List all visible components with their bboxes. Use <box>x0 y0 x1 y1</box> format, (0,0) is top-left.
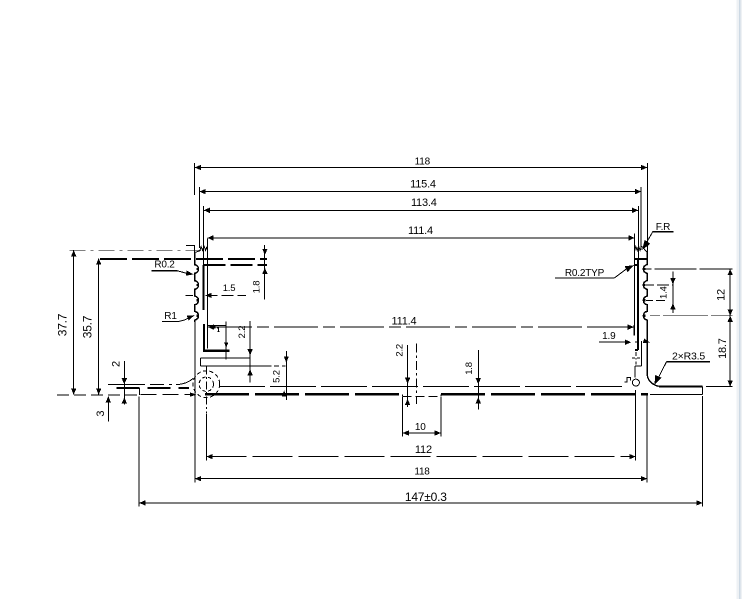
dimension 1.8 mid line <box>476 350 481 409</box>
right wall inner face <box>637 259 639 350</box>
dimension 115.4 text <box>410 178 436 190</box>
dimension 112 text <box>415 444 432 456</box>
svg-text:3: 3 <box>95 411 107 417</box>
dimension 1.9 text <box>602 331 616 342</box>
ext line 113.4 right <box>637 206 639 259</box>
svg-text:1.5: 1.5 <box>223 283 236 294</box>
dimension 12 text <box>715 289 727 301</box>
plate left end vertical <box>139 388 141 395</box>
ext line 113.4 left <box>203 206 205 265</box>
dimension 35.7 line <box>96 258 101 394</box>
svg-text:111.4: 111.4 <box>392 315 417 327</box>
dimension 1.4 line <box>670 272 675 314</box>
svg-text:1.8: 1.8 <box>251 281 262 294</box>
ext line 10 left <box>402 397 404 437</box>
dimension 1.8 lip line <box>262 245 267 300</box>
svg-text:1.4: 1.4 <box>658 286 669 299</box>
svg-text:12: 12 <box>715 289 727 301</box>
ext line 10 right <box>440 397 442 437</box>
dimension 10 text <box>415 422 426 433</box>
ext line 18.7 bottom <box>706 386 733 388</box>
left wall box left vertical <box>203 324 205 352</box>
svg-text:2.2: 2.2 <box>395 344 406 357</box>
ext line 111.4 right <box>634 234 636 336</box>
dimension 2 left text <box>111 361 123 367</box>
boss inner dashed circle <box>199 377 213 391</box>
left step upper line <box>201 357 251 359</box>
dimension 2.2 left line <box>247 321 252 382</box>
svg-text:10: 10 <box>415 422 426 433</box>
ext line 115.4 left <box>198 187 200 248</box>
right wall serrated outer edge <box>643 253 647 375</box>
bottom channel left wall <box>402 394 404 396</box>
bottom channel right wall <box>440 394 442 396</box>
dimension 115.4 line <box>199 189 641 194</box>
left wall top tick <box>186 245 195 247</box>
dimension 5.2 line <box>282 351 289 400</box>
right wall notch floor <box>635 258 647 260</box>
left step lower line <box>201 365 286 367</box>
tooth centerline 2 <box>646 284 673 286</box>
dimension 10 line <box>403 430 441 435</box>
left wall outer lower edge <box>194 322 196 375</box>
dimension 5.2 text <box>272 370 283 383</box>
ext line 118 bottom right <box>646 395 648 482</box>
right boss center cross <box>632 352 640 365</box>
dimension 1.9 upper leader <box>590 326 626 328</box>
dimension 18.7 line <box>728 316 733 387</box>
right flange end vertical <box>701 387 703 395</box>
svg-text:35.7: 35.7 <box>81 315 95 338</box>
arrow on box inner ext <box>224 342 228 347</box>
label F.R <box>642 222 673 250</box>
dimension 112 line <box>206 454 635 459</box>
label R0.2 left <box>152 260 194 276</box>
dimension 18.7 text <box>717 338 729 359</box>
left tongue top line <box>108 378 193 384</box>
right wall lower face <box>634 366 636 378</box>
dimension 35.7 text <box>81 315 95 338</box>
svg-text:1.8: 1.8 <box>464 362 475 375</box>
dimension 118 bottom text <box>414 466 430 477</box>
svg-text:37.7: 37.7 <box>56 313 70 336</box>
plate bottom thick line right <box>441 393 648 395</box>
label R1 <box>162 311 195 322</box>
dimension 1.8 lip text <box>251 281 262 294</box>
dimension 1.5 line <box>186 293 246 298</box>
svg-text:111.4: 111.4 <box>408 225 433 237</box>
dimension 2 left line <box>122 361 127 405</box>
dimension 3 line <box>106 396 111 421</box>
right wall inner face foot <box>635 349 638 351</box>
svg-text:115.4: 115.4 <box>410 178 436 190</box>
plate top line <box>219 385 625 387</box>
svg-text:118: 118 <box>414 466 430 477</box>
boss outer dashed circle <box>193 371 220 398</box>
ext line 112 right <box>635 390 637 461</box>
left wall lower box inner vertical <box>225 322 227 360</box>
dimension 2.2 mid line <box>405 345 410 407</box>
svg-text:112: 112 <box>415 444 432 456</box>
plate bottom thick line left <box>205 393 403 395</box>
dimension 113.4 line <box>204 208 639 213</box>
ext line 147 right <box>702 396 704 507</box>
dimension 118 top text <box>415 156 431 167</box>
svg-text:118: 118 <box>415 156 431 167</box>
right wall fillet 2xR3.5 <box>647 374 659 387</box>
dimension 1.9 lower line <box>599 340 638 345</box>
left plate top thick dashes <box>117 387 190 389</box>
label 2xR3.5 <box>654 351 710 386</box>
ext line 118 bottom left <box>194 375 196 483</box>
dimension 147 line <box>139 500 702 505</box>
tooth centerline 3 <box>646 299 667 301</box>
svg-text:147±0.3: 147±0.3 <box>405 490 447 504</box>
dimension 1.4 text <box>658 286 669 299</box>
dimension 111.4 top text <box>408 225 433 237</box>
dimension 37.7 line <box>71 250 76 394</box>
ext line 112 left <box>205 414 207 461</box>
ext line 115.4 right <box>640 187 642 250</box>
dimension 2.2 left text <box>237 326 248 339</box>
svg-text:18.7: 18.7 <box>717 338 729 359</box>
plate bottom left ext dashes <box>57 394 138 396</box>
left wall lower box bottom bar <box>204 350 230 353</box>
left wall slot vertical <box>206 239 208 349</box>
label 1 small arrow <box>208 325 219 332</box>
tick at 111.4 right end <box>633 325 635 336</box>
dimension 1.8 mid text <box>464 362 475 375</box>
label R0.2TYP <box>555 265 634 279</box>
centerline near channel <box>416 344 418 405</box>
tooth centerline 1 <box>645 268 733 270</box>
dimension 147 text <box>405 490 447 504</box>
right wall lower inner vertical <box>641 341 643 366</box>
ext line 118 top left <box>194 163 196 253</box>
left wall lip top line <box>100 258 267 260</box>
left wall serrated outer edge <box>195 253 199 323</box>
plate bottom left dashes <box>141 394 196 396</box>
left wall lower box top <box>207 325 226 327</box>
dimension 111.4 top line <box>207 235 634 240</box>
left wall top serration zigzag <box>195 246 208 252</box>
dimension 12 line <box>728 269 733 316</box>
left wall lip bottom line <box>204 264 268 266</box>
left wall inner face <box>203 265 205 310</box>
ext line 37.7 top <box>70 249 201 251</box>
svg-text:R1: R1 <box>164 311 177 322</box>
right wall lower step <box>635 365 642 367</box>
dimension 3 text <box>95 411 107 417</box>
svg-text:2: 2 <box>111 361 123 367</box>
right flange top <box>659 385 703 387</box>
dimension 111.4 middle line <box>208 324 634 329</box>
ext line 147 left <box>138 396 140 506</box>
dimension 118 top line <box>195 165 648 170</box>
ext line 118 top right <box>646 163 648 253</box>
arrow on plate for 3 <box>190 392 197 396</box>
arrow on right wall at 1.9 <box>643 339 650 343</box>
dimension 37.7 text <box>56 313 70 336</box>
right boss circle <box>632 379 639 386</box>
svg-text:1.9: 1.9 <box>602 331 616 342</box>
scrollbar strip <box>737 0 742 599</box>
right wall step line <box>634 264 639 266</box>
dimension 118 bottom line <box>195 476 647 481</box>
right wall cusp center dots <box>643 268 645 317</box>
right wall top serration zigzag <box>635 246 648 252</box>
dimension 111.4 middle text <box>392 315 417 327</box>
dimension 113.4 text <box>411 197 437 209</box>
right wall tab <box>625 377 631 382</box>
left step vertical <box>200 358 202 366</box>
svg-text:5.2: 5.2 <box>272 370 283 383</box>
tooth centerline 4 <box>650 315 733 317</box>
left wall cusp center dots <box>197 268 199 317</box>
bottom channel floor <box>403 396 441 398</box>
right flange bottom <box>650 394 703 396</box>
dimension 2.2 mid text <box>395 344 406 357</box>
dimension 1.5 text <box>223 283 236 294</box>
svg-text:2.2: 2.2 <box>237 326 248 339</box>
svg-text:113.4: 113.4 <box>411 197 437 209</box>
boss centerline vertical <box>205 367 207 414</box>
svg-text:2×R3.5: 2×R3.5 <box>672 351 705 363</box>
svg-text:R0.2: R0.2 <box>154 260 175 271</box>
